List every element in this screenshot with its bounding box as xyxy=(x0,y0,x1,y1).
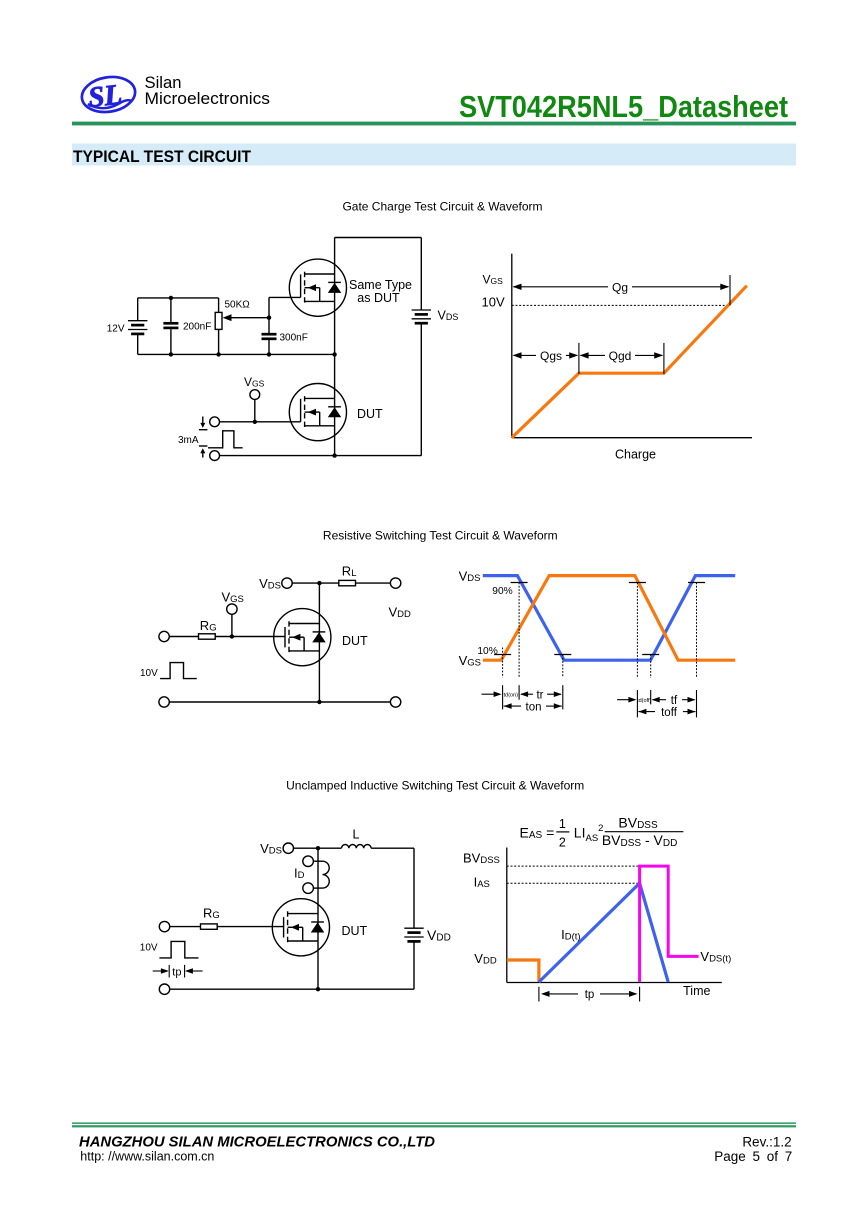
curve VDD orange xyxy=(507,960,539,982)
wire right rail upper xyxy=(413,848,415,928)
curve VGS orange xyxy=(483,576,735,661)
svg-text:10V: 10V xyxy=(140,668,158,679)
svg-text:RG: RG xyxy=(200,618,217,634)
svg-text:ton: ton xyxy=(526,701,542,713)
wire bottom rail xyxy=(220,455,422,457)
svg-text:300nF: 300nF xyxy=(280,332,308,343)
tick Qgd xyxy=(663,343,665,374)
svg-text:VDS(t): VDS(t) xyxy=(700,949,731,965)
arrow tr xyxy=(521,693,533,695)
terminal VDS circle xyxy=(282,578,292,588)
svg-text:SVT042R5NL5_Datasheet: SVT042R5NL5_Datasheet xyxy=(459,90,788,124)
svg-text:tf: tf xyxy=(671,695,678,707)
wire right rail upper xyxy=(420,238,422,311)
wire to gate of upper mosfet xyxy=(269,296,301,298)
wire wiper junction up xyxy=(268,297,270,317)
svg-text:http: //www.silan.com.cn: http: //www.silan.com.cn xyxy=(80,1150,214,1164)
axis horizontal xyxy=(512,437,752,439)
svg-text:10V: 10V xyxy=(140,943,158,954)
terminal gate input circle xyxy=(159,921,169,931)
svg-text:DUT: DUT xyxy=(342,924,368,938)
pulse waveform 10V xyxy=(160,663,197,679)
transistor DUT xyxy=(272,899,329,956)
svg-text:BVDSS: BVDSS xyxy=(618,814,658,831)
arrow lead-in td(off) xyxy=(617,699,634,701)
svg-text:td(on): td(on) xyxy=(504,692,519,698)
Silan logo SL script xyxy=(87,79,132,114)
transistor DUT xyxy=(274,609,331,666)
terminal source return circle xyxy=(210,451,220,461)
svg-text:Unclamped Inductive Switching: Unclamped Inductive Switching Test Circu… xyxy=(286,779,584,793)
pulse waveform 3mA xyxy=(208,431,243,448)
terminal VGS circle xyxy=(250,390,260,400)
arrow tf xyxy=(653,699,666,701)
svg-text:1: 1 xyxy=(559,817,566,831)
svg-text:2: 2 xyxy=(559,835,566,849)
dashed IAS level xyxy=(507,882,640,884)
svg-text:IAS: IAS xyxy=(474,875,490,891)
terminal bottom left circle xyxy=(159,697,169,707)
svg-text:10V: 10V xyxy=(482,294,505,309)
node wiper junction dot xyxy=(267,316,271,320)
battery VDS xyxy=(412,310,431,323)
svg-text:Rev.:1.2: Rev.:1.2 xyxy=(742,1134,791,1149)
svg-text:Same Type: Same Type xyxy=(349,278,412,292)
wire gate xyxy=(220,421,301,423)
terminal bottom left circle xyxy=(159,984,169,994)
svg-text:90%: 90% xyxy=(492,586,512,597)
node source junction dot xyxy=(317,700,321,704)
node drain junction dot xyxy=(317,581,321,585)
arrow current out xyxy=(202,452,204,458)
svg-text:L: L xyxy=(353,828,360,842)
wire top rail xyxy=(335,237,422,239)
wire left top rail xyxy=(138,297,219,299)
svg-text:VDS: VDS xyxy=(260,841,282,857)
arrow Qg xyxy=(514,286,729,288)
wire bottom rail xyxy=(169,701,390,703)
current probe links xyxy=(313,860,322,862)
curve gate charge orange xyxy=(512,286,747,438)
arrow lead-in td(on) xyxy=(482,693,500,695)
wire top right xyxy=(371,847,414,849)
node junction dots bottom rail xyxy=(169,352,173,356)
svg-text:as DUT: as DUT xyxy=(357,291,400,305)
battery VDD xyxy=(404,928,423,941)
bar lower xyxy=(199,445,208,447)
capacitor 300nF xyxy=(262,333,277,336)
svg-text:DUT: DUT xyxy=(357,407,383,421)
svg-text:200nF: 200nF xyxy=(183,321,211,332)
wire main rail xyxy=(317,848,319,989)
dashed guide lines xyxy=(502,648,504,678)
curve ID(t) blue xyxy=(539,883,668,982)
svg-text:tp: tp xyxy=(172,966,181,978)
arrow current in xyxy=(202,417,204,425)
svg-text:Microelectronics: Microelectronics xyxy=(145,90,271,108)
potentiometer 50K leads xyxy=(218,298,220,313)
wire gate to mosfet xyxy=(217,926,283,928)
node gate junction dot xyxy=(253,420,257,424)
svg-text:ID: ID xyxy=(294,866,305,882)
svg-text:BVDSS - VDD: BVDSS - VDD xyxy=(602,832,677,849)
capacitor 300nF bottom lead xyxy=(268,340,270,354)
bar upper xyxy=(199,429,208,431)
svg-text:toff: toff xyxy=(661,707,678,719)
capacitor 200nF leads xyxy=(170,298,172,322)
node top junction dot xyxy=(316,846,320,850)
svg-text:VDD: VDD xyxy=(389,604,412,620)
wire drain top xyxy=(292,582,339,584)
wire main drain-source rail xyxy=(334,238,336,456)
svg-text:LIAS2: LIAS2 xyxy=(574,823,604,844)
svg-text:50KΩ: 50KΩ xyxy=(225,300,251,311)
svg-text:Qgd: Qgd xyxy=(609,349,632,363)
svg-text:12V: 12V xyxy=(107,323,125,334)
svg-text:ID(t): ID(t) xyxy=(561,927,580,943)
svg-text:VGS: VGS xyxy=(222,590,244,606)
battery 12V xyxy=(128,321,147,334)
label Qgd xyxy=(605,349,635,362)
potentiometer 50K body xyxy=(215,312,222,329)
svg-text:DUT: DUT xyxy=(342,634,368,648)
arrow ton xyxy=(504,705,521,707)
svg-text:VDS: VDS xyxy=(438,309,459,323)
svg-text:Charge: Charge xyxy=(615,448,656,462)
tp bars xyxy=(538,987,540,1002)
svg-text:td(off): td(off) xyxy=(637,698,651,704)
svg-text:RL: RL xyxy=(342,564,357,580)
terminal VDS circle xyxy=(283,843,293,853)
capacitor 200nF xyxy=(163,322,178,325)
wire RL to VDD terminal xyxy=(356,582,391,584)
battery 12V leads xyxy=(137,298,139,321)
svg-text:Resistive Switching Test Circu: Resistive Switching Test Circuit & Wavef… xyxy=(323,529,558,543)
formula fraction bar xyxy=(605,831,684,833)
wire right rail lower xyxy=(413,941,415,989)
curve VDS(t) magenta xyxy=(640,866,699,982)
curve VDS blue xyxy=(483,576,735,661)
svg-text:VDD: VDD xyxy=(427,927,451,944)
current probe coil arcs xyxy=(323,861,330,888)
dashed BVDSS level xyxy=(507,865,640,867)
node junction dot top-left xyxy=(169,296,173,300)
svg-text:HANGZHOU SILAN MICROELECTRONIC: HANGZHOU SILAN MICROELECTRONICS CO.,LTD xyxy=(79,1134,436,1150)
wire right rail lower xyxy=(420,323,422,455)
pulse waveform 10V xyxy=(159,941,198,958)
arrow tp left xyxy=(543,993,579,995)
current probe ID circles xyxy=(303,856,314,867)
svg-text:EAS =: EAS = xyxy=(520,824,555,841)
bars timing left group xyxy=(502,685,504,709)
ticks 90 percent level xyxy=(511,582,528,584)
footer green rule thick xyxy=(72,1125,796,1127)
ticks 10 percent level xyxy=(494,654,511,656)
wire VGS down xyxy=(231,614,233,636)
svg-text:Qgs: Qgs xyxy=(540,349,562,363)
wire bottom rail xyxy=(170,988,414,990)
dashed 10V level line xyxy=(512,304,730,306)
terminal bottom right circle xyxy=(390,697,400,707)
section heading bar xyxy=(72,144,796,166)
Silan logo ellipse xyxy=(79,73,137,115)
svg-text:Time: Time xyxy=(683,984,710,998)
wire main rail xyxy=(318,583,320,702)
node bottom junction dot xyxy=(332,453,336,457)
footer green rule thin xyxy=(72,1122,796,1124)
arrow Qgs xyxy=(514,354,578,356)
arrow Qgd xyxy=(581,354,663,356)
wire left bottom rail xyxy=(138,353,335,355)
wire top left xyxy=(294,847,342,849)
svg-text:Gate Charge Test Circuit & Wav: Gate Charge Test Circuit & Waveform xyxy=(342,199,542,213)
arrow tp right xyxy=(600,993,636,995)
wire junction to 300nF xyxy=(268,318,270,333)
svg-text:VDS: VDS xyxy=(259,576,281,592)
svg-text:RG: RG xyxy=(203,906,220,922)
svg-text:tr: tr xyxy=(536,690,543,702)
resistor RG xyxy=(199,634,216,639)
terminal gate input circle xyxy=(159,631,169,641)
tick Qgs xyxy=(578,343,580,374)
transistor upper mosfet Same Type as DUT xyxy=(289,259,346,316)
wire VGS down xyxy=(254,400,256,422)
arrow toff xyxy=(638,711,655,713)
svg-text:tp: tp xyxy=(585,989,595,1001)
svg-text:VGS: VGS xyxy=(483,273,504,287)
terminal VDD circle xyxy=(390,578,400,588)
tp pulse width arrows xyxy=(168,965,170,978)
terminal VGS circle xyxy=(227,604,237,614)
wire gate left xyxy=(169,636,198,638)
node bottom junction dot xyxy=(316,987,320,991)
axis vertical xyxy=(506,848,508,983)
svg-text:3mA: 3mA xyxy=(178,435,199,446)
wire gate to mosfet xyxy=(215,636,285,638)
potentiometer wiper arrow xyxy=(229,317,269,319)
resistor RG xyxy=(201,924,218,929)
svg-text:Page 5 of 7: Page 5 of 7 xyxy=(714,1149,792,1164)
svg-text:Qg: Qg xyxy=(612,280,628,294)
terminal gate input circle xyxy=(210,417,220,427)
node gate junction dot xyxy=(230,634,234,638)
label Qg xyxy=(608,281,632,293)
inductor L xyxy=(342,845,372,849)
bars timing right group xyxy=(636,690,638,717)
header green rule xyxy=(72,122,796,126)
wire gate left xyxy=(170,926,201,928)
axis horizontal xyxy=(507,982,722,984)
tick Qg end xyxy=(729,275,731,305)
svg-text:BVDSS: BVDSS xyxy=(463,851,500,867)
transistor DUT xyxy=(289,384,346,441)
axis vertical xyxy=(511,254,513,438)
svg-text:VGS: VGS xyxy=(244,375,265,389)
label Qgs xyxy=(536,349,566,362)
svg-text:TYPICAL TEST CIRCUIT: TYPICAL TEST CIRCUIT xyxy=(73,147,252,166)
svg-text:VDS: VDS xyxy=(459,569,481,585)
svg-text:VDD: VDD xyxy=(474,951,497,967)
resistor RL xyxy=(339,580,356,585)
